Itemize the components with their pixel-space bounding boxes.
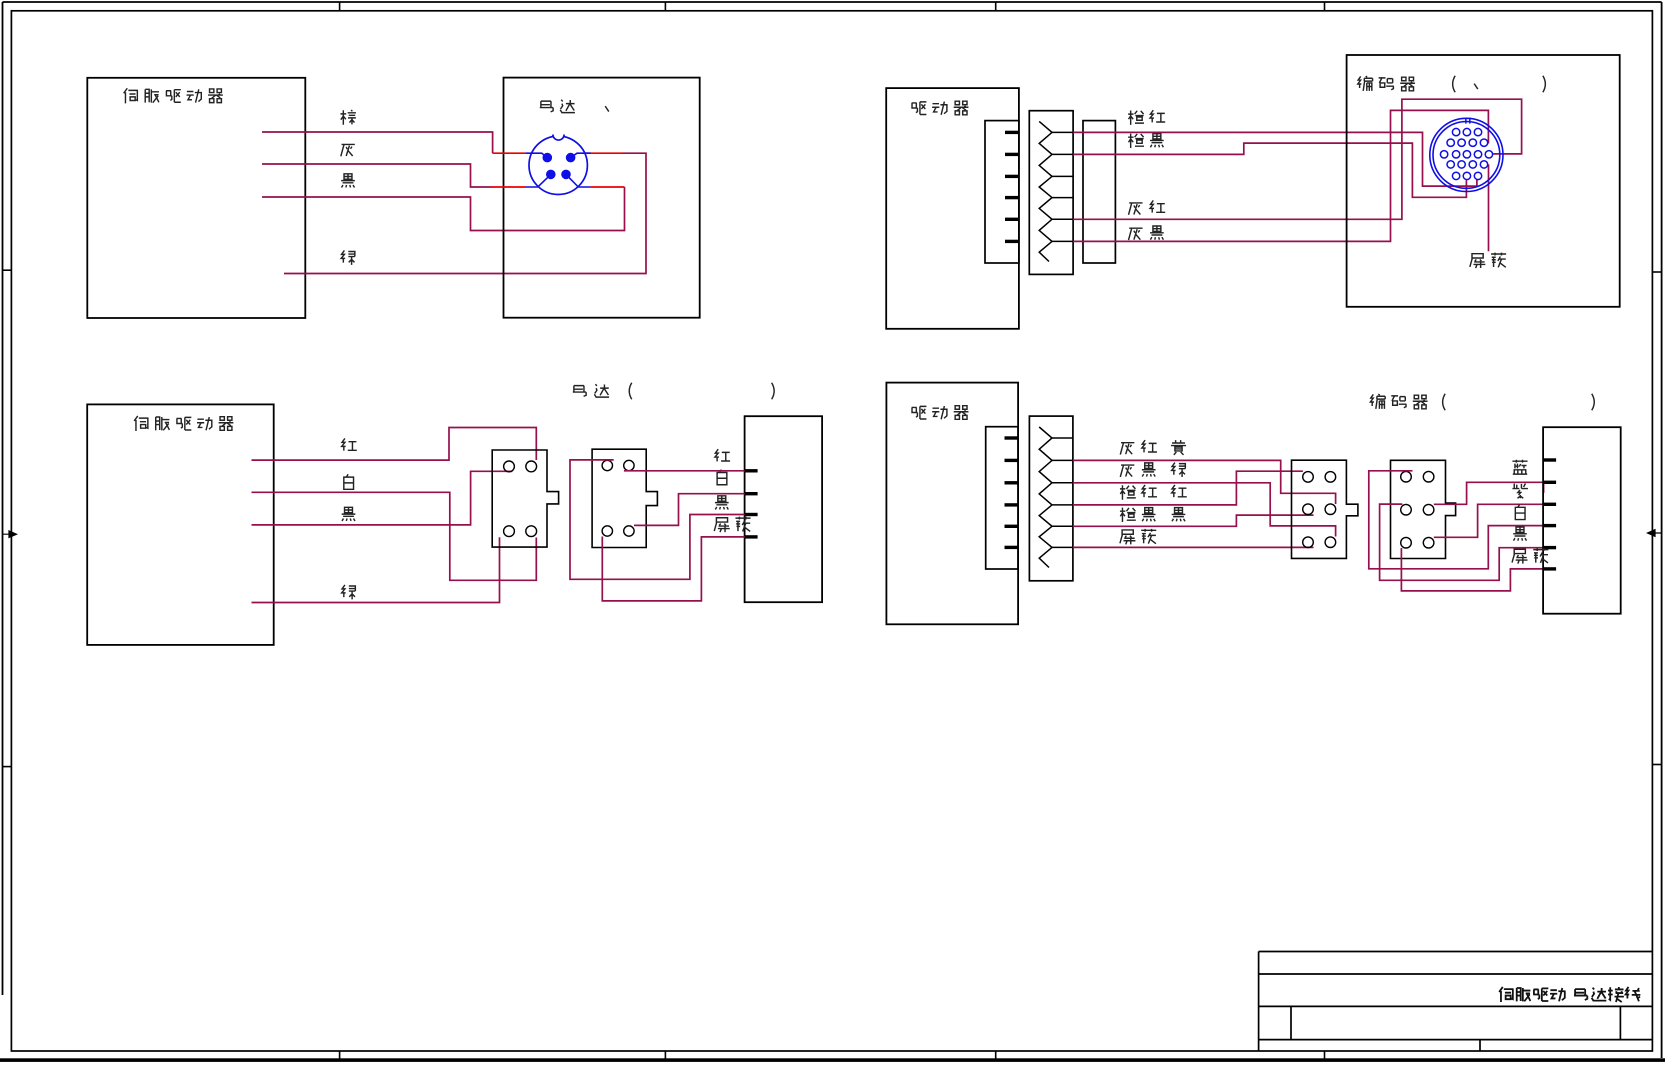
connector C1 pins [504,461,515,472]
wire black [262,187,625,231]
wire orange-black [1073,143,1466,197]
outer border frame [3,1,1662,3]
labels wire pairs [1120,440,1157,454]
box driver 1 [886,88,1019,329]
wire orange-black/black [1073,515,1314,526]
motor connector pin 1 [543,153,552,162]
encoder round connector shell [1430,118,1503,191]
title block [1259,951,1653,953]
label 编码器（ ） title2 [1370,394,1427,409]
label 棕 [340,110,355,125]
connector B pins [1401,471,1412,482]
crimp contact housing 2 [1029,416,1073,581]
wire gray-red [1073,99,1522,219]
label 灰 [341,144,355,156]
wire B to encoder pin3 [1434,504,1544,537]
label 白 motor [717,470,727,485]
wire gray-red/yellow [1073,460,1336,504]
box servo driver 1 [87,78,305,318]
label 黑 [342,507,356,521]
motor connector pin 4 [562,170,571,179]
wire orange-red/red [1073,471,1303,505]
label 紫 [1512,484,1527,499]
label 蓝 [1512,460,1527,474]
box motor 2 [745,416,823,602]
wire red [252,428,537,461]
wire black 2 [252,471,513,525]
wire shield 2 [1073,546,1314,548]
wire B to encoder pin5 [1380,504,1544,580]
wire gray-black/green [1073,483,1336,537]
encoder connector pins 19 [1452,128,1459,135]
wire green [284,153,646,273]
label 橙红 [1128,110,1165,125]
label 灰黑 [1129,226,1164,240]
connector C2 pins [602,460,612,470]
connector B housing [1391,460,1456,558]
label 伺服驱动器 box1 [124,88,223,103]
box driver 2 [886,383,1018,625]
blue pin leads [526,153,548,157]
label 白 [344,474,354,489]
label 绿 [341,250,355,264]
connector A pins [1303,472,1314,483]
label 驱动器 box3 [911,101,968,115]
wire brown [262,132,493,153]
wire B to encoder pin4 [1369,471,1543,569]
wire white c2-motor [634,494,745,526]
label 伺服驱动器 box2 [134,416,233,431]
label 黑 enc [1513,527,1527,541]
encoder 2 terminal pins [1543,458,1556,461]
driver 2 pin header [986,427,1018,569]
motor connector pin 2 [566,153,575,162]
cable ferrule housing 1 [1083,121,1115,263]
wire red c2-motor [624,470,745,472]
label 马达（ ） title [573,384,609,397]
motor connector pin 3 [547,170,556,179]
label 白 enc [1515,504,1525,519]
connector C2 housing [592,449,657,547]
box motor 1 [504,78,700,318]
wire black c2-motor [570,460,745,579]
box servo driver 2 [87,404,274,645]
border zone ticks right [1652,271,1661,273]
wire shield c2-motor [602,537,744,601]
centering arrow right [1648,530,1662,537]
label 屏蔽 motor [714,517,750,532]
wire gray [262,164,492,187]
label 马达 、 box [540,100,575,113]
label 灰红 [1129,200,1166,214]
border zone ticks top [339,2,341,11]
crimp contact housing 1 [1029,111,1073,275]
wire B to encoder pin2 [1434,482,1544,504]
label 驱动器 box4 [911,406,968,420]
box encoder 2 [1543,427,1621,614]
wire shield encoder1 [1488,164,1490,251]
wire B to encoder pin6 [1401,548,1543,591]
wire green 2 [252,537,500,602]
label 编码器（ 、 ） [1358,76,1415,91]
label 红 motor [715,449,730,461]
wire orange-red [1073,132,1477,186]
wire gray-black [1073,110,1488,241]
label 屏蔽 encoder1 [1470,253,1506,268]
motor round connector shell [529,136,587,194]
red lead segments motor connector [493,152,526,154]
label 绿 [342,585,356,599]
label 橙黑 [1128,134,1164,148]
connector A housing [1292,460,1358,558]
border zone ticks left [3,269,12,271]
border zone ticks bottom [339,1051,341,1060]
label 屏蔽 enc [1512,548,1548,563]
title text 伺服驱动 马达接线 [1499,987,1640,1002]
label 红 [342,438,357,450]
motor 2 terminal pins [745,469,758,472]
centering arrow left [3,531,17,538]
label 黑 [341,174,355,188]
box encoder 1 [1347,55,1620,307]
label 黑 motor [715,496,729,510]
connector C1 housing [492,450,558,547]
wire white [252,492,537,580]
driver 1 pin header [985,121,1019,263]
